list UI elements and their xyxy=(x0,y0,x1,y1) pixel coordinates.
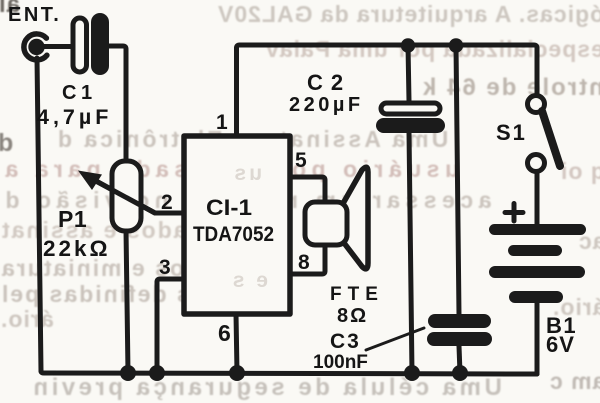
wire: pin 6 down to ground rail xyxy=(236,314,237,372)
wire: pin 5 to speaker top xyxy=(291,177,325,203)
svg-text:2: 2 xyxy=(161,191,173,214)
svg-text:C3: C3 xyxy=(330,330,361,353)
svg-text:CI-1: CI-1 xyxy=(206,195,252,220)
switch S1 top contact xyxy=(528,96,545,113)
wire: bottom ground rail xyxy=(41,371,537,374)
svg-text:C2: C2 xyxy=(307,70,351,95)
battery B1 plate 3 (long) xyxy=(489,266,585,278)
svg-text:FTE: FTE xyxy=(330,284,384,305)
switch S1 lever xyxy=(542,111,560,166)
faint bleed-through inside IC box xyxy=(230,162,268,292)
junction node bottom rail (pin 6) xyxy=(229,365,245,381)
capacitor C2 bottom plate (solid) xyxy=(376,118,445,133)
junction node on top rail (C2 branch) xyxy=(401,38,415,52)
svg-text:ENT.: ENT. xyxy=(8,4,61,26)
speaker FTE driver box xyxy=(305,202,347,245)
wire: top supply rail xyxy=(237,45,538,97)
svg-text:4,7µF: 4,7µF xyxy=(37,105,112,129)
capacitor C3 top plate xyxy=(428,314,491,328)
battery B1 plate 2 (short) xyxy=(508,245,562,256)
ghost bleed-through text line 10 xyxy=(0,308,54,331)
svg-text:6: 6 xyxy=(218,320,231,346)
wire: P1 bottom to ground rail xyxy=(126,230,128,372)
svg-text:S1: S1 xyxy=(496,120,527,145)
capacitor C2 top plate xyxy=(381,103,440,114)
ghost bleed-through text line 7 xyxy=(0,219,235,242)
potentiometer P1 body xyxy=(112,161,141,231)
junction node bottom rail (C3) xyxy=(452,365,468,381)
ghost fragment right (usuario row) xyxy=(560,160,600,183)
ghost bleed-through text line 4 xyxy=(55,128,448,151)
svg-text:e s: e s xyxy=(230,269,268,292)
svg-text:3: 3 xyxy=(159,256,171,279)
op-amp IC CI-1 box xyxy=(184,136,290,314)
wire: C3 branch from top rail down to C3 xyxy=(456,46,459,316)
junction node on top rail (C3 branch) xyxy=(449,38,463,52)
svg-text:6V: 6V xyxy=(546,332,575,357)
wire: pin 2 to P1 wiper xyxy=(87,176,184,213)
ghost bleed-through text line 8 xyxy=(0,257,278,280)
ghost fragment bottom right xyxy=(549,370,600,393)
C3 label pointer line xyxy=(366,328,424,350)
svg-text:us: us xyxy=(231,162,262,185)
ghost bleed-through text line 11 (bottom) xyxy=(30,376,502,400)
wire: C2 bottom plate down to ground rail xyxy=(409,132,412,373)
battery + sign xyxy=(505,204,523,222)
ghost fragment right mid 1 xyxy=(578,230,600,253)
svg-text:220µF: 220µF xyxy=(289,94,364,116)
svg-text:P1: P1 xyxy=(58,206,87,232)
input jack ENT. ring xyxy=(24,34,47,60)
svg-text:C1: C1 xyxy=(62,82,97,104)
switch S1 bottom contact xyxy=(528,155,545,172)
wire: C2 branch from top rail to C2 top plate xyxy=(408,46,409,102)
svg-text:22kΩ: 22kΩ xyxy=(43,236,111,261)
wire: pin 8 to speaker bottom xyxy=(291,243,325,274)
svg-text:1: 1 xyxy=(216,111,228,134)
wire: jack to C1 xyxy=(37,44,73,49)
ghost fragment right mid 2 xyxy=(552,296,600,319)
speaker FTE cone xyxy=(341,167,368,269)
svg-text:100nF: 100nF xyxy=(313,352,368,373)
svg-text:TDA7052: TDA7052 xyxy=(193,223,274,246)
junction node bottom rail (P1) xyxy=(120,365,136,381)
junction node bottom rail (pin 3) xyxy=(149,365,165,381)
wire: S1 bottom to battery + xyxy=(535,171,540,225)
potentiometer P1 wiper arrow xyxy=(93,180,155,214)
ghost bleed-through text line 5 xyxy=(0,158,459,181)
battery B1 plate 1 (long +) xyxy=(489,224,586,235)
ghost bleed-through text line 9 xyxy=(0,283,273,306)
ghost bleed-through text line 1 xyxy=(217,3,600,26)
wire: left ground rail vertical from jack down xyxy=(37,58,41,371)
ghost fragment top-left corner xyxy=(0,0,20,17)
svg-text:5: 5 xyxy=(295,149,307,172)
ghost fragment left edge (line 4 end) xyxy=(0,131,13,156)
wire: pin 1 up to top rail xyxy=(234,48,239,136)
input jack center pin xyxy=(28,39,44,55)
capacitor C3 bottom plate xyxy=(427,332,492,346)
wire: pin 3 down to ground rail xyxy=(157,279,184,372)
wire: C1 to corner and down to P1 top xyxy=(106,46,126,163)
battery B1 plate 4 (short) xyxy=(509,291,563,303)
ghost bleed-through text line 6 xyxy=(0,189,491,212)
ghost bleed-through text line 3 xyxy=(421,76,600,100)
wire: C3 bottom to ground rail xyxy=(459,346,460,373)
ghost bleed-through text line 2 xyxy=(265,38,600,61)
svg-text:8Ω: 8Ω xyxy=(337,305,368,327)
junction node bottom rail (C2) xyxy=(404,365,420,381)
capacitor C1 left plate xyxy=(73,18,87,72)
capacitor C1 right plate (polarized, solid) xyxy=(91,13,109,75)
svg-text:8: 8 xyxy=(298,251,310,274)
wire: battery - down to ground rail xyxy=(535,301,540,374)
